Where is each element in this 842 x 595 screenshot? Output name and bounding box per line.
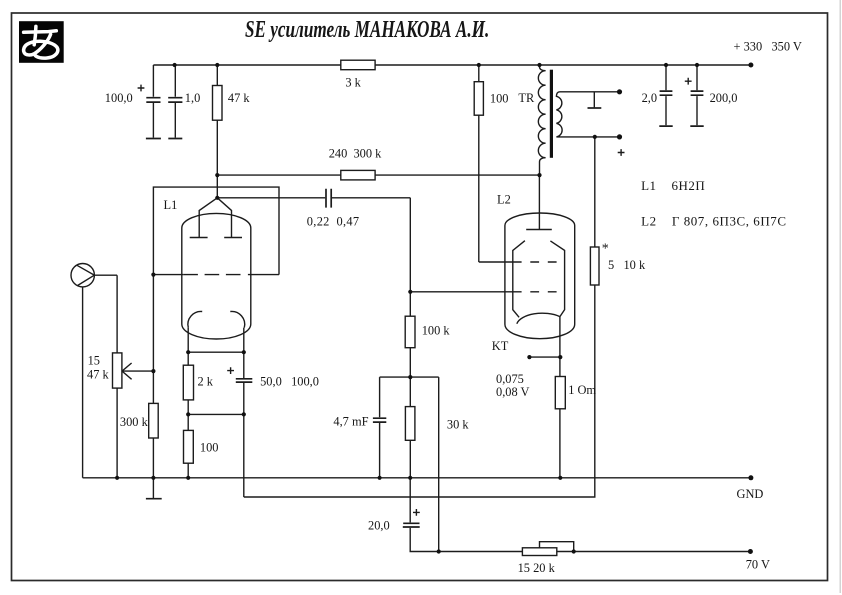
junction node (217.3,175.1) xyxy=(215,173,219,177)
tube L1 envelope xyxy=(182,213,251,339)
resistor R 3k xyxy=(341,60,375,69)
junction node (539.5,175.1) xyxy=(537,173,541,177)
capacitor C 200,0 xyxy=(690,65,703,126)
wire coupling to L2 grid xyxy=(409,198,411,377)
svg-text:47 k: 47 k xyxy=(228,91,250,105)
tube L1 anodes xyxy=(190,198,242,238)
plus of C 100,0 xyxy=(138,85,145,92)
resistor R 100 cathode xyxy=(184,430,194,463)
logo glyph a-hiragana xyxy=(24,26,58,58)
junction node (750.9,65) xyxy=(748,63,753,68)
junction node (560.3,477.8) xyxy=(558,476,562,480)
svg-text:2,0: 2,0 xyxy=(642,91,658,105)
svg-text:L2 Г 807, 6П3С, 6П7С: L2 Г 807, 6П3С, 6П7С xyxy=(641,213,786,228)
svg-text:L2: L2 xyxy=(497,193,511,207)
junction node (153.4,274.6) xyxy=(151,273,155,277)
junction node (697,65) xyxy=(695,63,699,67)
input jack J1 xyxy=(71,264,94,287)
resistor R 1 Om xyxy=(555,377,565,409)
tube L2 cathode xyxy=(517,313,560,324)
svg-text:100: 100 xyxy=(200,440,219,454)
wire grid column to wiper xyxy=(152,275,154,478)
junction node (410.3,291.8) xyxy=(408,290,412,294)
transformer TR secondary xyxy=(556,92,619,137)
plus of C 200,0 xyxy=(685,78,692,85)
wire NFB branch xyxy=(410,377,438,551)
junction node (188.2,477.8) xyxy=(186,476,190,480)
svg-text:4,7 mF: 4,7 mF xyxy=(333,415,368,429)
wire input to pot xyxy=(94,275,117,478)
tube L1 cathodes xyxy=(188,311,245,327)
transformer TR primary xyxy=(538,65,545,175)
plus of C 50,0 xyxy=(227,367,234,374)
wire L1 cathode leads xyxy=(188,328,244,353)
junction node (539.5,65) xyxy=(537,63,541,67)
wire 70V line xyxy=(439,551,751,553)
svg-text:2 k: 2 k xyxy=(198,374,214,388)
junction node (410.3,377.1) xyxy=(408,375,412,379)
logo black square xyxy=(19,21,64,63)
svg-text:*: * xyxy=(602,242,609,257)
transformer TR core xyxy=(550,70,553,158)
junction node (750.9,477.8) xyxy=(748,475,753,480)
svg-text:50,0: 50,0 xyxy=(260,374,282,388)
svg-text:100,0: 100,0 xyxy=(105,91,133,105)
resistor R 100k xyxy=(405,316,415,348)
svg-text:240 300 k: 240 300 k xyxy=(329,146,382,160)
junction node (438.7,551.5) xyxy=(437,549,441,553)
wire 2k-100 node xyxy=(188,413,244,415)
junction node (666,65) xyxy=(664,63,668,67)
resistor R 47k xyxy=(213,86,223,121)
svg-text:70 V: 70 V xyxy=(746,558,770,572)
capacitor C 1,0 xyxy=(168,65,182,139)
svg-text:47 k: 47 k xyxy=(87,367,109,381)
svg-text:1 Om: 1 Om xyxy=(568,383,596,397)
node speaker top xyxy=(617,89,622,94)
plus of C 20,0 xyxy=(413,509,420,516)
junction node (217.3,65) xyxy=(215,63,219,67)
wire B+ top rail xyxy=(153,64,751,66)
resistor R 100 screen xyxy=(474,65,483,262)
resistor R 2k xyxy=(183,365,193,400)
svg-text:KT: KT xyxy=(492,339,509,353)
svg-text:TR: TR xyxy=(518,91,535,105)
junction node (379.6,477.8) xyxy=(378,476,382,480)
svg-text:3 k: 3 k xyxy=(345,75,361,89)
wire 47k column to L1 anode apex xyxy=(216,65,218,198)
ground symbol xyxy=(146,478,162,499)
tube L2 beam plates xyxy=(513,241,565,318)
svg-text:20,0: 20,0 xyxy=(368,519,390,533)
junction node (573.7,551.5) xyxy=(572,549,576,553)
resistor R 15/20k xyxy=(522,548,556,556)
svg-text:5 10 k: 5 10 k xyxy=(608,258,646,272)
junction node (243.8,352.2) xyxy=(242,350,246,354)
capacitor C 4,7mF xyxy=(373,377,410,478)
junction node (560.3,357.1) xyxy=(558,355,562,359)
ground rail xyxy=(83,477,751,479)
junction node (410.2,477.8) xyxy=(408,476,412,480)
wire input ground xyxy=(82,287,84,478)
wire L2 cathode lead xyxy=(559,317,561,478)
junction node (117.1,477.8) xyxy=(115,476,119,480)
resistor R 240/300k xyxy=(341,170,375,180)
KT test point xyxy=(529,356,560,358)
svg-text:200,0: 200,0 xyxy=(710,91,738,105)
tube L2 anode xyxy=(526,175,552,229)
node speaker bottom xyxy=(617,134,622,139)
capacitor C 50,0 xyxy=(236,352,253,414)
junction node (594.8,136.9) xyxy=(593,135,597,139)
resistor R 5/10k xyxy=(590,247,599,285)
junction node (217.3,197.8) xyxy=(215,196,219,200)
svg-text:0,22 0,47: 0,22 0,47 xyxy=(307,214,360,228)
wire screen grid xyxy=(479,261,562,263)
capacitor C 20,0 xyxy=(403,478,439,552)
wire L2 control grid xyxy=(410,291,560,293)
junction node (174.6,65) xyxy=(173,63,177,67)
plus of secondary xyxy=(618,149,625,156)
capacitor C 100,0 xyxy=(146,65,161,139)
svg-text:SE усилитель МАНАКОВА А.И.: SE усилитель МАНАКОВА А.И. xyxy=(245,15,489,43)
coupling capacitor C 0,22/0,47 xyxy=(217,189,410,208)
svg-text:100: 100 xyxy=(490,91,509,105)
svg-text:0,075: 0,075 xyxy=(496,372,524,386)
wire NFB from secondary xyxy=(244,137,595,497)
wire L1 grid dashed xyxy=(153,274,279,276)
wire cathode column left xyxy=(187,352,189,478)
junction node (188.2,414.4) xyxy=(186,412,190,416)
potentiometer R 15/47k xyxy=(113,353,122,388)
junction node (153.4,371.1) xyxy=(151,369,155,373)
svg-text:100 k: 100 k xyxy=(422,323,451,337)
resistor R 30k xyxy=(405,377,415,478)
junction node (529.4,357.1) xyxy=(527,355,531,359)
junction node (153.4,477.8) xyxy=(151,476,155,480)
tap jumper xyxy=(540,542,574,552)
junction node (188.2,352.2) xyxy=(186,350,190,354)
svg-text:100,0: 100,0 xyxy=(291,374,319,388)
junction node (750.4,551.5) xyxy=(748,549,753,554)
svg-text:L1: L1 xyxy=(164,198,178,212)
resistor R 300k xyxy=(149,403,159,438)
svg-text:15 20 k: 15 20 k xyxy=(518,561,556,575)
wire 240/300k feedback from node to L2 anode xyxy=(217,174,539,176)
svg-text:+ 330 350 V: + 330 350 V xyxy=(734,39,802,53)
wiper arrow xyxy=(122,363,153,379)
junction node (243.8,414.4) xyxy=(242,412,246,416)
svg-text:300 k: 300 k xyxy=(120,415,149,429)
svg-text:30 k: 30 k xyxy=(447,418,469,432)
svg-text:1,0: 1,0 xyxy=(185,91,201,105)
capacitor C 2,0 xyxy=(659,65,672,126)
tube L2 envelope xyxy=(505,213,575,339)
scan edge line xyxy=(839,0,841,593)
svg-text:0,08 V: 0,08 V xyxy=(496,385,530,399)
svg-text:15: 15 xyxy=(88,353,100,367)
junction node (478.8,65) xyxy=(477,63,481,67)
secondary ground stub xyxy=(588,92,602,108)
svg-text:L1 6Н2П: L1 6Н2П xyxy=(641,178,705,193)
tube L1 grid routing box xyxy=(153,187,279,275)
svg-text:GND: GND xyxy=(737,487,764,501)
